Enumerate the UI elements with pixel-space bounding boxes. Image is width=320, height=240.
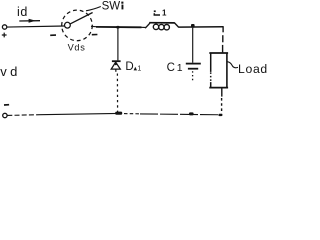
svg-text:SW: SW xyxy=(102,1,121,13)
capacitor C1 upper lead xyxy=(192,28,194,63)
svg-text:D: D xyxy=(125,61,133,73)
wire: inductor to output corner xyxy=(179,26,224,28)
minus sign right of switch (Vds -) xyxy=(92,34,98,36)
label L1 xyxy=(154,9,167,18)
junction blob: diode to rail xyxy=(115,112,122,115)
current arrow id xyxy=(19,19,40,23)
svg-text:Load: Load xyxy=(238,62,267,76)
leader line to SW1 label xyxy=(86,7,101,11)
minus sign bottom-left xyxy=(4,104,9,106)
junction blob: capacitor branch on rail xyxy=(189,112,194,115)
wire: corner down to load (dashed) xyxy=(222,26,225,52)
svg-text:id: id xyxy=(17,5,28,19)
label id xyxy=(17,5,28,19)
capacitor C1 plates xyxy=(186,64,201,69)
svg-text:1: 1 xyxy=(137,66,141,73)
switch SW1 dashed circle xyxy=(62,10,93,41)
minus sign left of switch (Vds -) xyxy=(50,34,56,36)
switch arm (open) xyxy=(70,13,93,24)
inductor L1 xyxy=(145,23,179,30)
diode D1 cathode bar xyxy=(112,60,121,62)
diode D1 triangle xyxy=(111,62,120,69)
svg-text:vd: vd xyxy=(0,64,21,79)
wire: input terminal to switch contact xyxy=(7,26,65,27)
label Vds xyxy=(68,42,86,52)
node junction tick at C1 branch xyxy=(191,24,195,28)
load lower lead xyxy=(221,88,223,114)
label Load xyxy=(238,62,268,76)
diode D1 lower lead (dashed) xyxy=(116,69,118,112)
label vd xyxy=(0,64,21,79)
load box xyxy=(209,53,228,88)
input terminal - (bottom-left) xyxy=(3,113,7,117)
label C1 xyxy=(167,62,183,74)
wire: switch to diode node to inductor xyxy=(91,26,146,27)
svg-text:1: 1 xyxy=(177,62,183,74)
squiggle leader to Load label xyxy=(227,62,238,68)
switch contact circle xyxy=(65,22,71,28)
svg-text:Vds: Vds xyxy=(68,42,86,52)
input terminal + (top-left) xyxy=(2,25,7,38)
capacitor C1 lower lead (dotted, fading) xyxy=(192,71,194,81)
junction corner: load to rail xyxy=(218,114,222,116)
svg-text:C: C xyxy=(167,62,175,74)
label SW1 xyxy=(102,1,124,13)
diode D1 upper lead xyxy=(116,26,119,61)
label D1 xyxy=(125,61,141,73)
svg-text:1: 1 xyxy=(162,9,167,18)
bottom rail wire xyxy=(7,113,222,115)
